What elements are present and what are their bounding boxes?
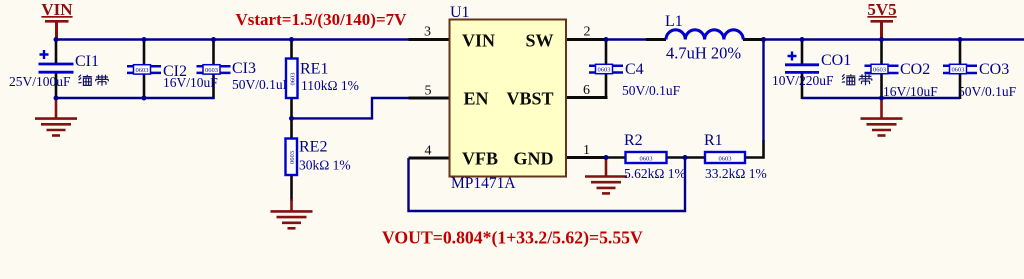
svg-text:RE1: RE1 bbox=[300, 61, 328, 78]
wire L1 right pin bbox=[743, 38, 764, 41]
svg-text:50V/0.1uF: 50V/0.1uF bbox=[622, 83, 681, 98]
capacitor CI1 polarized bbox=[9, 50, 99, 89]
svg-text:5: 5 bbox=[425, 84, 432, 99]
capacitor CI2 bbox=[127, 63, 218, 90]
svg-text:VOUT=0.804*(1+33.2/5.62)=5.55V: VOUT=0.804*(1+33.2/5.62)=5.55V bbox=[382, 228, 643, 248]
junction node CO3 top bbox=[958, 37, 963, 42]
wire CI1 bottom lead bbox=[55, 73, 58, 98]
wire C4 top lead bbox=[605, 40, 608, 65]
svg-text:4.7uH 20%: 4.7uH 20% bbox=[666, 44, 741, 63]
wire input bottom rail GND net bbox=[56, 97, 215, 99]
svg-text:30kΩ 1%: 30kΩ 1% bbox=[299, 158, 351, 173]
svg-text:0603: 0603 bbox=[136, 67, 149, 74]
wire CO3 top lead bbox=[959, 40, 962, 65]
ground symbol at CO2 bbox=[861, 98, 903, 136]
svg-text:0603: 0603 bbox=[598, 67, 611, 74]
resistor RE1 bbox=[286, 59, 359, 99]
svg-text:EN: EN bbox=[464, 89, 489, 109]
wire CO2 top lead bbox=[880, 40, 883, 65]
svg-text:RE2: RE2 bbox=[299, 139, 327, 156]
power port VIN bbox=[41, 0, 73, 40]
wire output divider riser bbox=[762, 40, 764, 142]
wire RE1 top lead bbox=[290, 40, 293, 59]
svg-text:0603: 0603 bbox=[640, 156, 653, 163]
capacitor CO2 bbox=[865, 61, 939, 99]
wire CI3 bottom lead bbox=[212, 73, 215, 99]
junction node RE1 top bbox=[289, 37, 294, 42]
svg-text:R2: R2 bbox=[624, 132, 643, 149]
wire VFB feedback net bbox=[409, 158, 686, 212]
svg-text:4: 4 bbox=[425, 144, 432, 159]
svg-text:L1: L1 bbox=[665, 13, 683, 30]
wire RE2 top lead bbox=[290, 118, 293, 138]
wire CI2 bottom lead bbox=[143, 73, 146, 98]
wire pin4 stub VFB bbox=[409, 157, 451, 160]
wire RE2 bottom lead bbox=[290, 175, 293, 202]
svg-text:0603: 0603 bbox=[952, 67, 965, 74]
junction node CO1 top bbox=[800, 37, 805, 42]
capacitor C4 bbox=[589, 61, 681, 98]
svg-text:2: 2 bbox=[584, 25, 591, 40]
wire CO1 top lead bbox=[801, 40, 804, 64]
svg-text:0603: 0603 bbox=[873, 67, 886, 74]
wire CO3 bottom lead bbox=[959, 73, 962, 99]
wire pin1 to R2 bbox=[606, 156, 626, 159]
svg-text:25V/100uF: 25V/100uF bbox=[9, 74, 71, 89]
svg-text:1: 1 bbox=[583, 143, 590, 158]
capacitor CO1 polarized bbox=[772, 52, 851, 89]
svg-text:16V/10uF: 16V/10uF bbox=[883, 84, 938, 99]
junction node CO2 bottom gnd bbox=[879, 96, 884, 101]
svg-text:0603: 0603 bbox=[205, 67, 218, 74]
wire input top rail VIN net bbox=[56, 38, 409, 40]
junction node SW/C4 bbox=[604, 37, 609, 42]
wire L1 left pin bbox=[646, 38, 666, 41]
inductor L1 bbox=[665, 13, 743, 63]
svg-text:10V/220uF: 10V/220uF bbox=[772, 73, 834, 88]
wire pin1 stub GND bbox=[566, 156, 607, 159]
svg-text:SW: SW bbox=[525, 31, 553, 51]
wire pin3 stub bbox=[409, 38, 451, 41]
wire CI2 top lead bbox=[143, 40, 146, 65]
wire CI3 top lead bbox=[212, 40, 215, 65]
svg-text:0603: 0603 bbox=[290, 73, 297, 86]
svg-text:33.2kΩ 1%: 33.2kΩ 1% bbox=[705, 166, 767, 181]
svg-text:U1: U1 bbox=[450, 4, 470, 21]
svg-text:C4: C4 bbox=[625, 61, 644, 78]
svg-text:CO3: CO3 bbox=[979, 61, 1009, 78]
svg-text:VBST: VBST bbox=[506, 89, 553, 109]
svg-text:CO2: CO2 bbox=[900, 61, 930, 78]
ground symbol at chip GND pin bbox=[585, 158, 627, 194]
svg-text:0603: 0603 bbox=[719, 156, 732, 163]
junction node CI1 bottom gnd bbox=[54, 96, 59, 101]
junction node pin1 gnd bbox=[604, 155, 609, 160]
resistor R1 bbox=[704, 132, 767, 181]
wire R1 right pin elbow up bbox=[745, 140, 764, 158]
wire CI1 top lead bbox=[55, 40, 58, 64]
svg-text:5.62kΩ 1%: 5.62kΩ 1% bbox=[624, 166, 686, 181]
wire C4 bottom lead bbox=[605, 74, 608, 100]
svg-text:VFB: VFB bbox=[462, 149, 498, 169]
wire CO1 bottom lead bbox=[801, 73, 804, 99]
svg-text:3: 3 bbox=[424, 25, 431, 40]
junction node CI2 bottom bbox=[142, 96, 147, 101]
wire output bottom rail GND net bbox=[802, 97, 960, 99]
op-amp U1 chip body MP1471A bbox=[450, 4, 567, 192]
capacitor CI3 bbox=[197, 60, 291, 92]
resistor R2 bbox=[624, 132, 686, 181]
svg-text:GND: GND bbox=[514, 149, 554, 169]
resistor RE2 bbox=[286, 139, 351, 176]
svg-text:CO1: CO1 bbox=[821, 52, 851, 69]
wire SW net to L1 bbox=[606, 38, 647, 40]
svg-text:CI1: CI1 bbox=[75, 53, 99, 70]
junction node R2/R1 FB bbox=[683, 155, 688, 160]
wire SW pin2 stub bbox=[566, 38, 607, 41]
wire output top rail 5V5 net bbox=[763, 38, 1024, 40]
wire pin6 stub VBST bbox=[566, 96, 608, 99]
wire R2 right pin to FB junction bbox=[667, 156, 686, 159]
svg-text:16V/10uF: 16V/10uF bbox=[163, 75, 218, 90]
ground symbol at CI1 bbox=[35, 98, 77, 136]
value label CI1 chinese bian-dai bbox=[78, 75, 108, 86]
wire R1 left pin bbox=[685, 156, 705, 159]
junction node CI3 top bbox=[211, 37, 216, 42]
wire pin5 stub bbox=[409, 97, 451, 100]
svg-text:50V/0.1uF: 50V/0.1uF bbox=[958, 84, 1017, 99]
svg-text:CI3: CI3 bbox=[232, 60, 256, 77]
junction node VIN/CI1 bbox=[54, 37, 59, 42]
svg-text:VIN: VIN bbox=[41, 0, 73, 19]
wire EN net from RE1/RE2 junction to chip bbox=[292, 98, 410, 118]
power port 5V5 bbox=[867, 0, 896, 40]
svg-text:R1: R1 bbox=[704, 132, 723, 149]
svg-text:50V/0.1uF: 50V/0.1uF bbox=[232, 77, 291, 92]
value label CO1 chinese bian-dai bbox=[842, 74, 872, 85]
junction node RE1/RE2 EN bbox=[289, 116, 294, 121]
junction node L1 out bbox=[761, 37, 766, 42]
svg-text:VIN: VIN bbox=[462, 31, 495, 51]
svg-text:MP1471A: MP1471A bbox=[451, 175, 516, 192]
svg-text:0603: 0603 bbox=[289, 151, 296, 164]
junction node CI2 top bbox=[142, 37, 147, 42]
svg-text:6: 6 bbox=[583, 83, 590, 98]
svg-text:5V5: 5V5 bbox=[867, 0, 896, 19]
ground symbol at RE2 bbox=[271, 199, 313, 228]
wire RE1 bottom lead bbox=[290, 98, 293, 119]
svg-text:Vstart=1.5/(30/140)=7V: Vstart=1.5/(30/140)=7V bbox=[236, 10, 408, 29]
wire CO2 bottom lead bbox=[880, 73, 883, 98]
junction node 5V5/CO2 bbox=[879, 37, 884, 42]
svg-text:110kΩ 1%: 110kΩ 1% bbox=[301, 78, 359, 93]
capacitor CO3 bbox=[943, 61, 1017, 99]
